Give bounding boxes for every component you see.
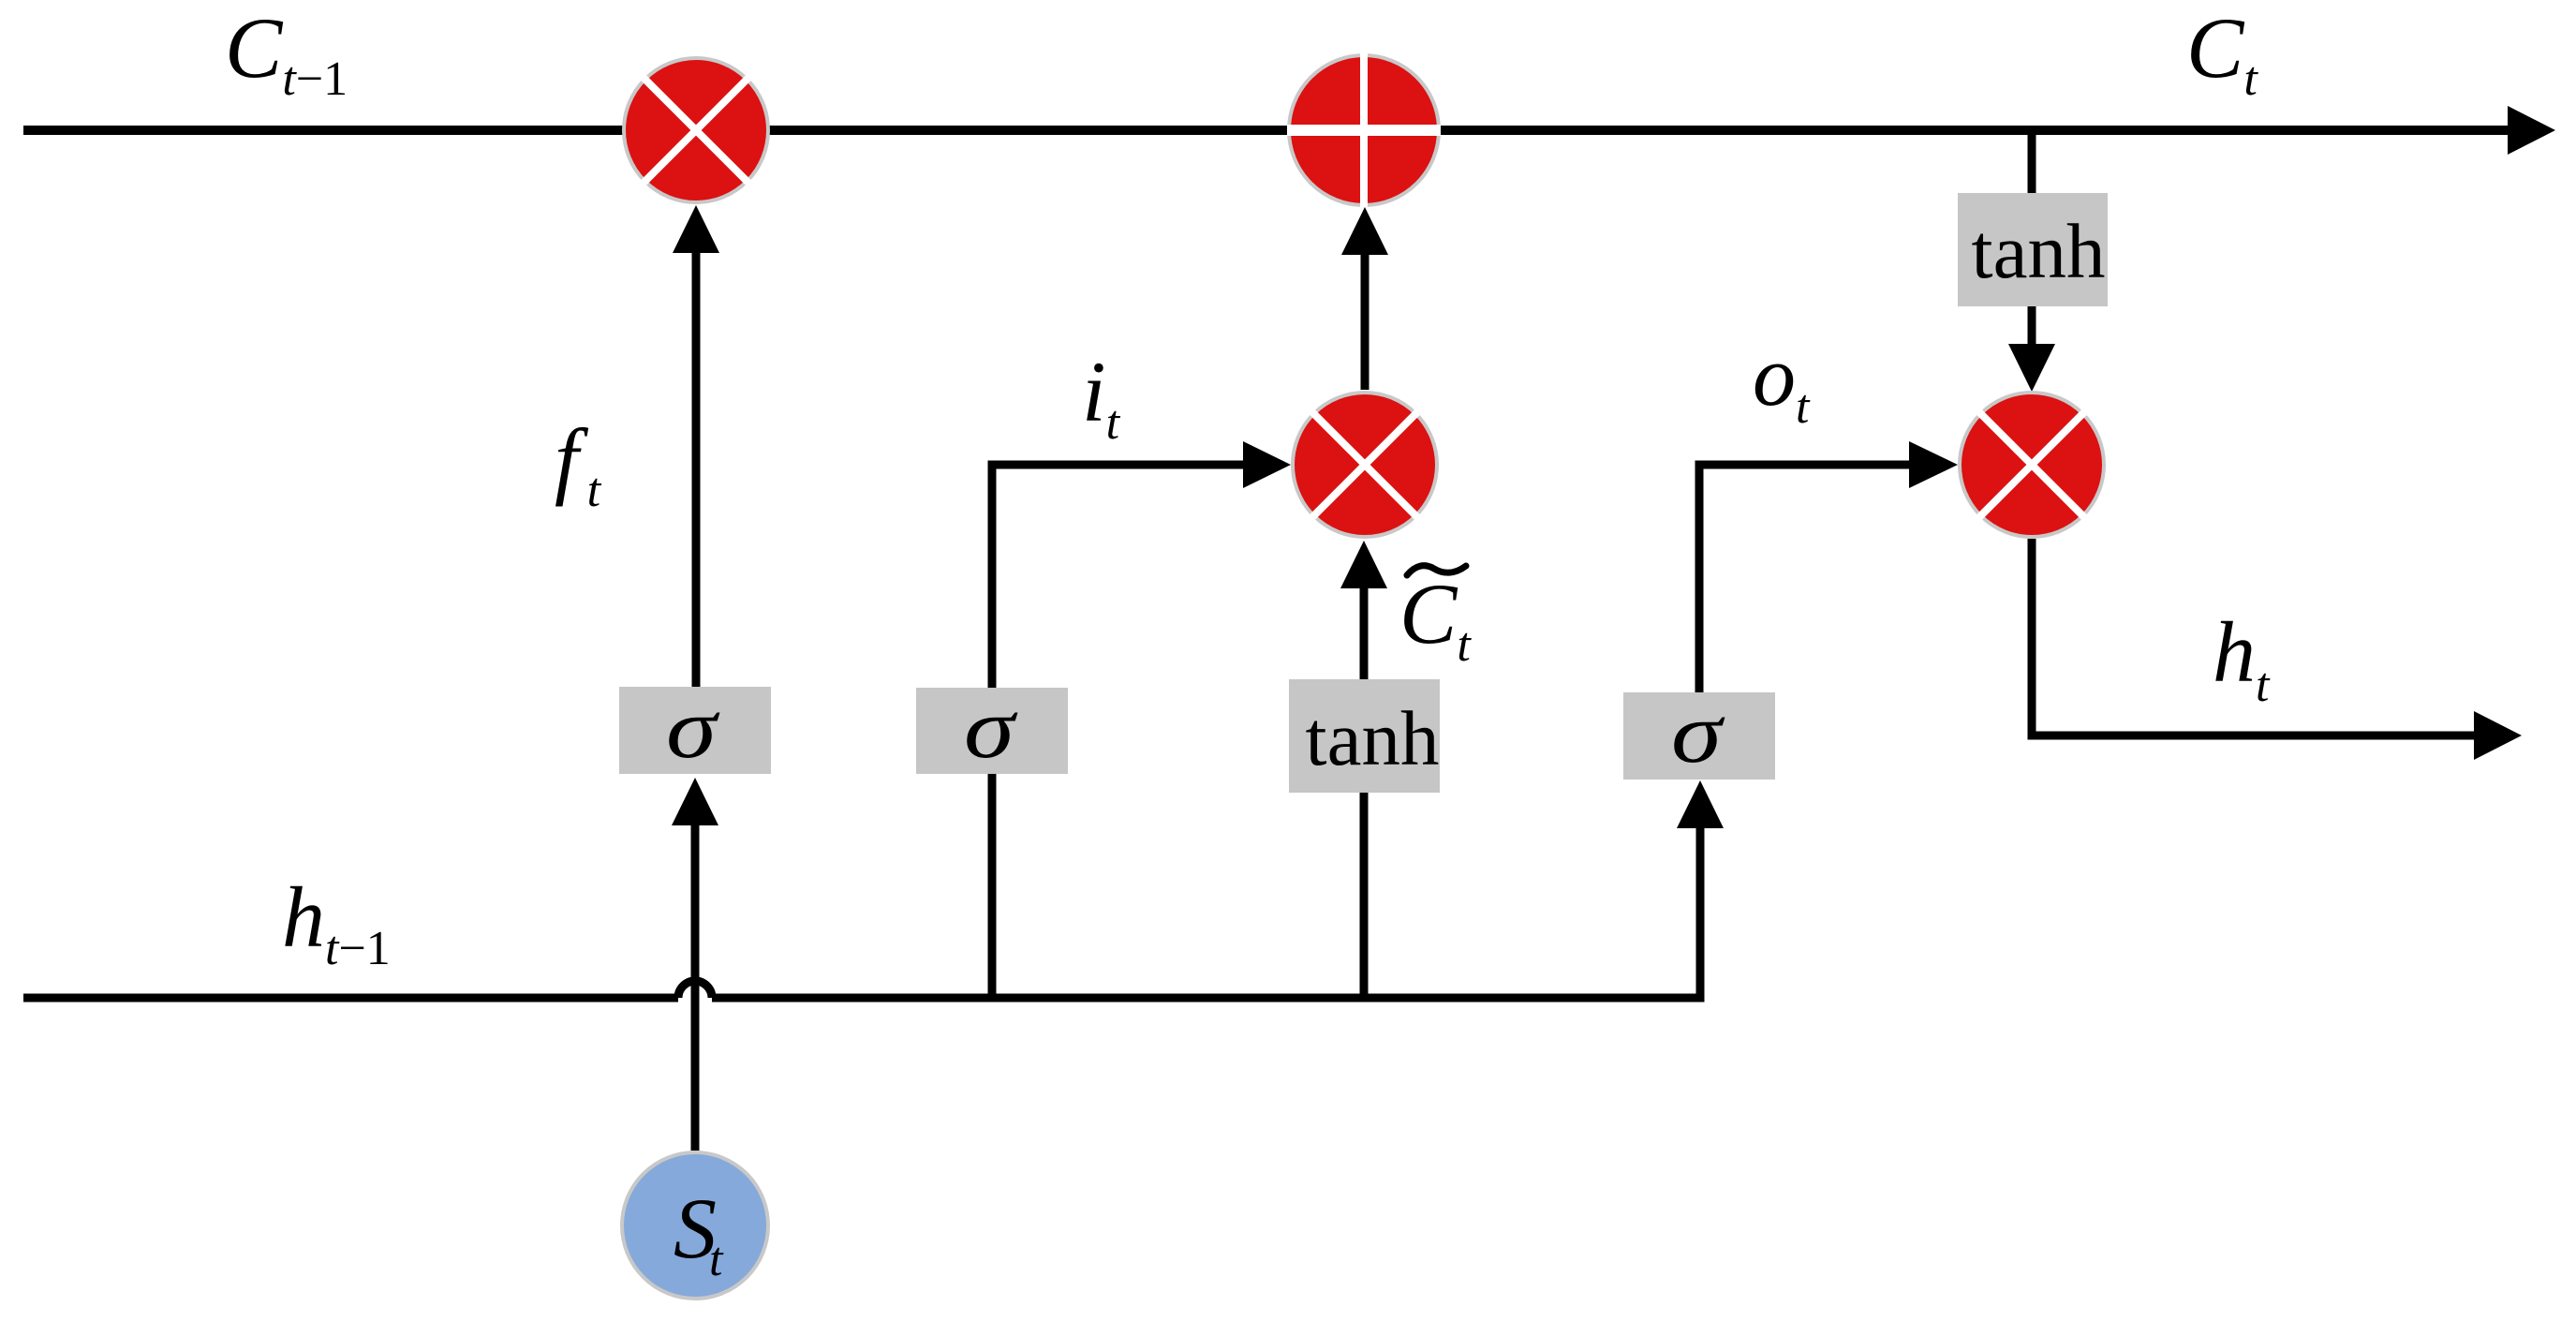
gate box: sigma i: [916, 688, 1068, 774]
op: multiply (input gate): [1260, 360, 1469, 569]
svg-text:σ: σ: [666, 680, 720, 776]
wire: branch up to sigma o gate: [712, 828, 1700, 998]
gate box: sigma o: [1623, 692, 1775, 780]
svg-text:σ: σ: [1671, 685, 1725, 780]
wire: branch to tanh gate: [1360, 588, 1369, 998]
op: multiply X1 (forget): [591, 25, 800, 234]
wire: o_t from sigma to output multiply: [1699, 465, 1909, 693]
arrowhead: into sigma f gate: [672, 778, 718, 825]
wire: tanh down to multiply: [2028, 306, 2036, 344]
node: S_t input: [622, 1152, 768, 1299]
gate box: tanh (output): [1958, 193, 2108, 306]
wire: branch to sigma i gate: [992, 465, 1243, 998]
arrowhead: into multiply X1: [673, 205, 719, 253]
wire: cell state line C (top, left to right): [23, 126, 2508, 135]
wire: hidden state line h_t-1 (bottom, with gap at hop): [23, 994, 1700, 1003]
arrowhead: C~_t into multiply: [1340, 541, 1387, 588]
wire: f_t from sigma up to multiply: [692, 253, 701, 687]
arrowhead: o_t into multiply: [1909, 441, 1958, 488]
tilde over C: [1407, 566, 1466, 575]
wire: multiply up to add: [1361, 255, 1369, 390]
op: multiply (output gate): [1927, 360, 2136, 569]
wire: h_t output: [2032, 539, 2474, 735]
svg-text:tanh: tanh: [1972, 208, 2106, 294]
svg-text:tanh: tanh: [1306, 695, 1440, 781]
hop over h_t-1 line: [678, 981, 712, 998]
arrowhead: h_t output: [2474, 711, 2522, 760]
wire: C line down into tanh (right): [2028, 130, 2036, 193]
arrowhead: tanh output into multiply: [2008, 344, 2055, 392]
arrowhead: into add circle: [1341, 207, 1388, 255]
op: add (cell update): [1287, 53, 1441, 207]
svg-text:σ: σ: [964, 680, 1018, 776]
arrowhead: i_t into multiply: [1243, 441, 1291, 488]
arrowhead: into sigma o gate: [1677, 780, 1724, 828]
gate box: sigma f: [619, 687, 771, 774]
svg-text:St: St: [674, 1181, 724, 1286]
arrowhead: C_t output: [2508, 106, 2555, 155]
wire: S_t input up through hop to forget gate: [691, 825, 700, 1151]
gate box: tanh (candidate): [1289, 679, 1440, 793]
